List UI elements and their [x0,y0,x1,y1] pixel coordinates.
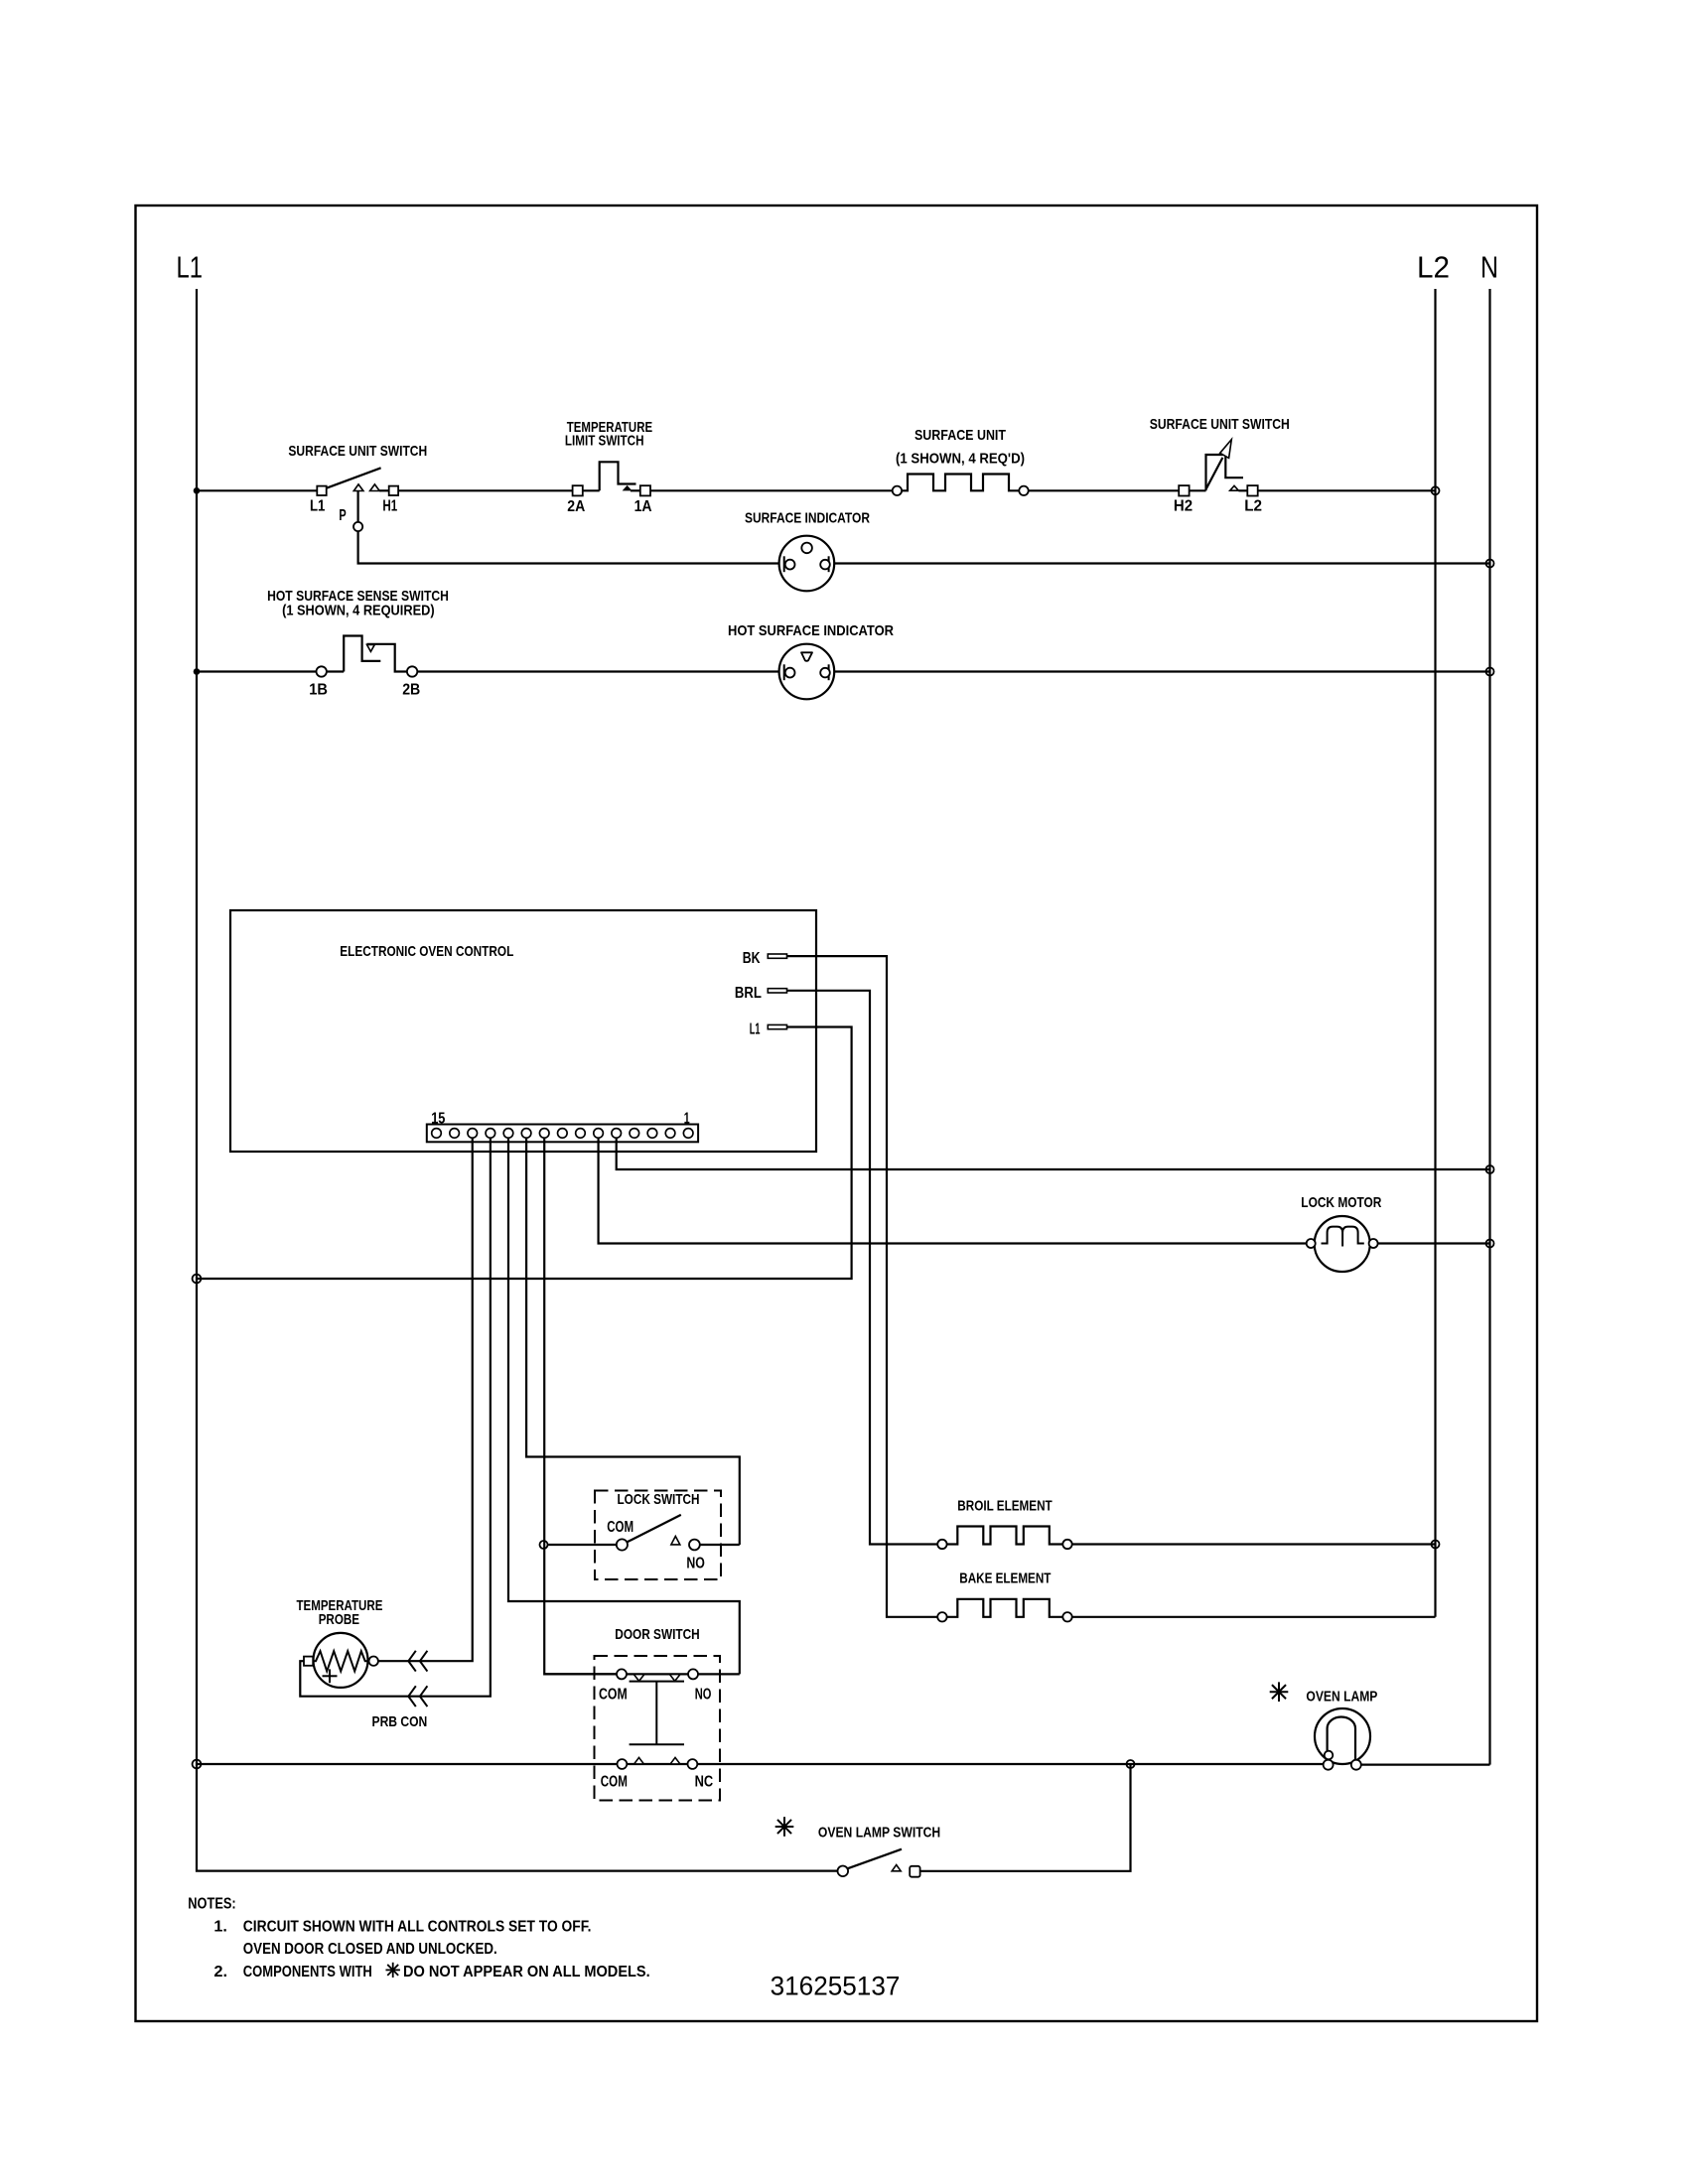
svg-text:NOTES:: NOTES: [188,1895,235,1912]
svg-text:CIRCUIT SHOWN WITH ALL CONTROL: CIRCUIT SHOWN WITH ALL CONTROLS SET TO O… [243,1918,592,1935]
svg-text:15: 15 [431,1110,446,1127]
svg-text:HOT SURFACE INDICATOR: HOT SURFACE INDICATOR [728,623,894,639]
svg-text:2.: 2. [213,1964,227,1980]
svg-text:DOOR SWITCH: DOOR SWITCH [615,1627,699,1643]
svg-text:OVEN DOOR CLOSED AND UNLOCKED.: OVEN DOOR CLOSED AND UNLOCKED. [243,1941,497,1958]
svg-text:COM: COM [599,1686,628,1703]
svg-text:ELECTRONIC OVEN CONTROL: ELECTRONIC OVEN CONTROL [340,944,513,960]
svg-text:NC: NC [695,1773,714,1790]
svg-text:P: P [339,507,346,524]
svg-text:H1: H1 [382,497,397,514]
svg-text:1.: 1. [213,1918,227,1935]
svg-text:SURFACE UNIT SWITCH: SURFACE UNIT SWITCH [288,444,427,460]
svg-text:H2: H2 [1174,498,1193,515]
svg-text:BROIL ELEMENT: BROIL ELEMENT [957,1499,1052,1515]
svg-text:L1: L1 [750,1021,761,1037]
svg-text:N: N [1480,250,1498,285]
svg-text:L2: L2 [1417,250,1450,285]
svg-text:BAKE ELEMENT: BAKE ELEMENT [959,1571,1051,1587]
svg-text:BRL: BRL [735,985,762,1002]
svg-text:OVEN LAMP SWITCH: OVEN LAMP SWITCH [818,1825,940,1841]
svg-text:L1: L1 [177,250,204,285]
svg-text:2B: 2B [402,681,420,698]
svg-text:COMPONENTS WITH: COMPONENTS WITH [243,1964,372,1980]
svg-text:316255137: 316255137 [771,1972,901,2001]
svg-text:L1: L1 [310,497,326,514]
svg-text:PROBE: PROBE [319,1612,359,1628]
svg-text:SURFACE INDICATOR: SURFACE INDICATOR [745,510,870,526]
svg-text:PRB CON: PRB CON [372,1714,428,1730]
svg-text:(1 SHOWN, 4 REQUIRED): (1 SHOWN, 4 REQUIRED) [282,604,435,619]
svg-text:LIMIT SWITCH: LIMIT SWITCH [565,434,644,450]
svg-text:NO: NO [695,1686,712,1703]
svg-text:BK: BK [743,950,761,967]
svg-text:(1 SHOWN, 4 REQ'D): (1 SHOWN, 4 REQ'D) [896,451,1025,467]
svg-text:SURFACE UNIT: SURFACE UNIT [914,428,1006,444]
svg-text:SURFACE UNIT SWITCH: SURFACE UNIT SWITCH [1150,417,1290,433]
svg-text:2A: 2A [567,498,585,515]
svg-text:NO: NO [686,1555,705,1571]
svg-text:DO NOT APPEAR ON ALL MODELS.: DO NOT APPEAR ON ALL MODELS. [403,1964,650,1980]
svg-text:1B: 1B [309,681,328,698]
svg-text:OVEN LAMP: OVEN LAMP [1306,1690,1377,1706]
svg-text:1A: 1A [634,498,652,515]
svg-text:LOCK MOTOR: LOCK MOTOR [1301,1195,1381,1211]
svg-text:COM: COM [601,1773,628,1790]
svg-text:1: 1 [684,1110,690,1127]
svg-text:LOCK SWITCH: LOCK SWITCH [618,1492,700,1508]
svg-text:COM: COM [607,1519,633,1536]
svg-text:L2: L2 [1244,498,1262,515]
